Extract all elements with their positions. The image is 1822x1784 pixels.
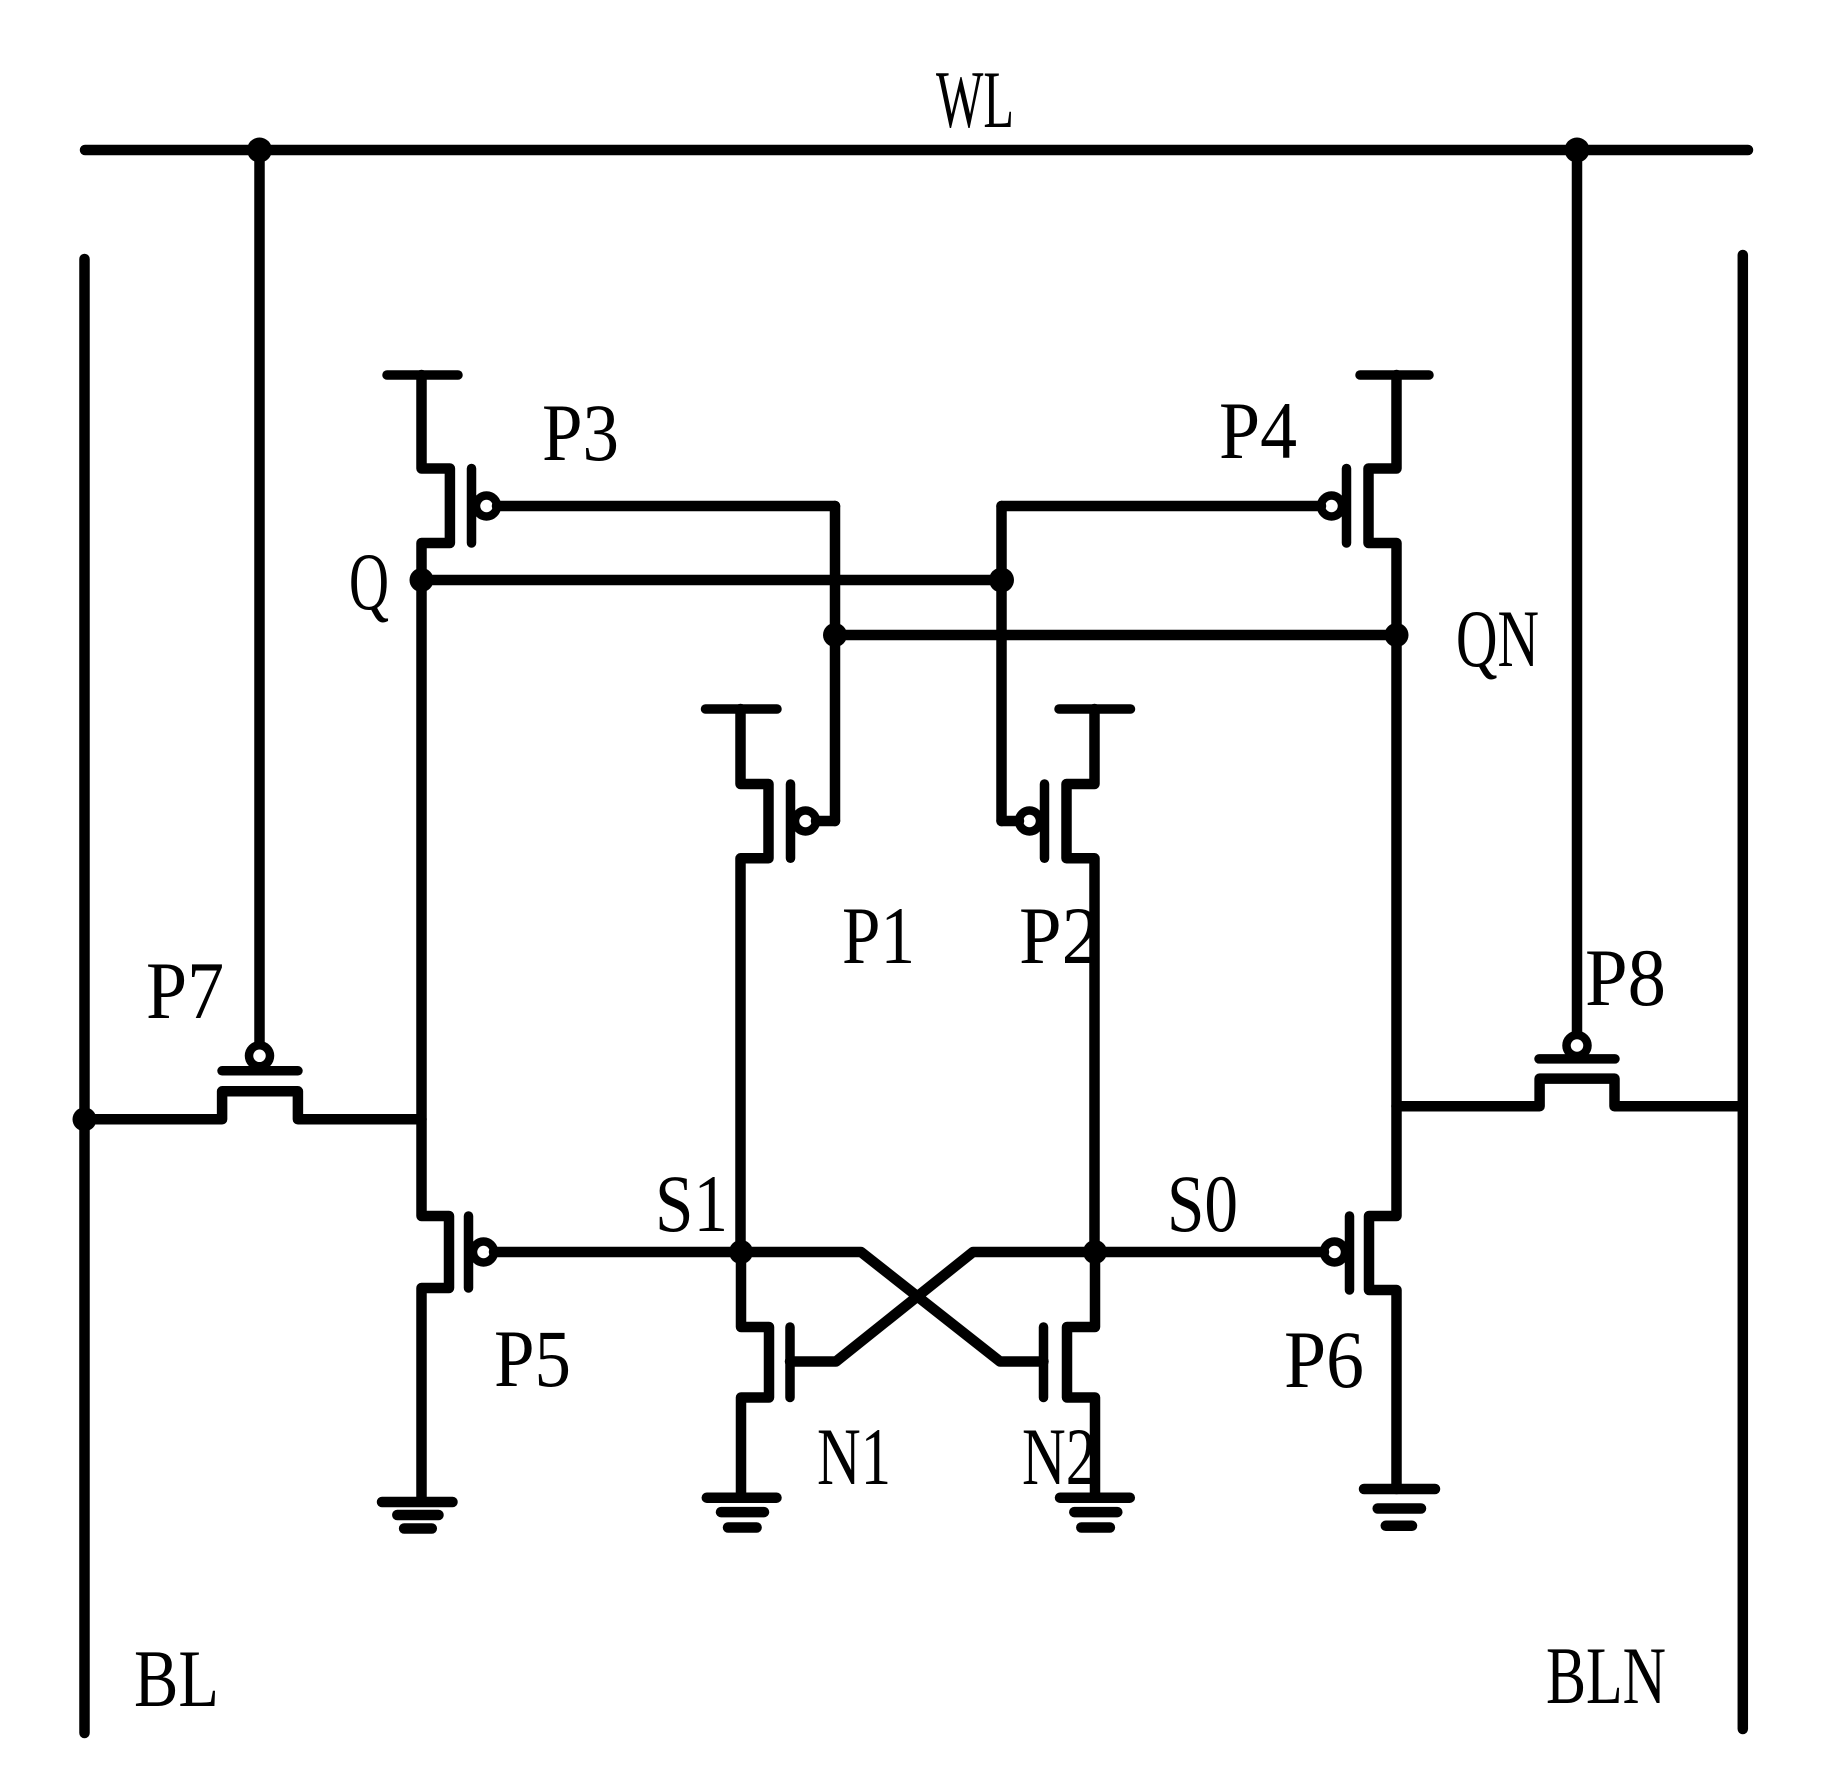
power VDD bar of P1 <box>706 704 778 714</box>
transistor P8 channel with source/drain leads (QN net to BLN) <box>1397 1079 1743 1107</box>
wire node Q horizontal <box>422 575 1002 586</box>
transistor P7 gate bubble <box>249 1045 270 1066</box>
ground symbol below P6 <box>1364 1489 1435 1526</box>
wire BLN bit line vertical <box>1738 255 1749 1729</box>
wire node QN horizontal <box>835 630 1397 641</box>
transistor P5 drain/channel/source Q net to ground <box>422 580 450 1498</box>
wire P4 gate to Q cross vertical <box>1002 501 1322 512</box>
svg-text:BL: BL <box>134 1633 219 1724</box>
transistor P6 gate bubble <box>1324 1242 1345 1263</box>
svg-text:QN: QN <box>1456 593 1539 684</box>
svg-text:P7: P7 <box>146 945 224 1036</box>
svg-text:P2: P2 <box>1019 890 1100 981</box>
transistor N1 gate bar <box>785 1327 795 1398</box>
wire P3 gate to QN cross vertical <box>497 501 835 512</box>
node S1 junction dot <box>729 1240 753 1264</box>
junction dot WL to P7 gate <box>247 138 272 163</box>
transistor P2 gate bar <box>1040 784 1050 858</box>
wire P6 gate to S0 <box>1095 1247 1324 1258</box>
transistor P4 gate bubble <box>1321 496 1342 517</box>
wire P8 gate lead from WL <box>1572 150 1583 1042</box>
ground symbol below P5 <box>382 1502 453 1529</box>
svg-text:Q: Q <box>349 536 389 627</box>
transistor P6 drain/channel/source QN net to ground <box>1369 635 1397 1489</box>
power VDD bar of P2 <box>1059 704 1131 714</box>
svg-text:P5: P5 <box>494 1313 571 1404</box>
transistor P1 source/channel/drain <box>741 709 769 1252</box>
svg-text:P1: P1 <box>842 890 915 981</box>
power VDD bar of P4 <box>1360 370 1429 380</box>
power VDD bar of P3 <box>387 370 458 380</box>
transistor P5 gate bubble <box>473 1242 494 1263</box>
svg-text:P4: P4 <box>1219 385 1297 476</box>
transistor P8 gate bar <box>1539 1054 1615 1064</box>
transistor P7 gate bar <box>222 1066 298 1076</box>
transistor P4 source/channel/drain <box>1369 375 1397 635</box>
transistor P7 channel with source/drain leads (BL to Q net) <box>85 1091 422 1119</box>
junction dot QN left <box>823 623 847 647</box>
svg-text:N2: N2 <box>1022 1411 1096 1502</box>
transistor N2 gate bar <box>1039 1327 1049 1398</box>
transistor P3 source/channel/drain <box>422 375 450 580</box>
node Q junction dot <box>410 568 434 592</box>
transistor P6 gate bar <box>1345 1216 1355 1290</box>
junction dot QN right <box>1385 623 1409 647</box>
ground symbol below N2 <box>1060 1498 1130 1528</box>
svg-text:N1: N1 <box>817 1411 891 1502</box>
wire cross-couple left vertical QN to P1 gate <box>830 506 841 821</box>
wire BL bit line vertical <box>79 259 90 1733</box>
node S0 junction dot <box>1083 1240 1107 1264</box>
wire cross-couple right vertical Q to P2 gate <box>996 506 1007 821</box>
wire WL horizontal <box>85 145 1748 156</box>
junction dot Q to right cross vertical <box>989 568 1014 593</box>
transistor N2 drain/channel/source <box>1067 1252 1095 1498</box>
transistor N1 drain/channel/source <box>741 1252 769 1498</box>
transistor P3 gate bubble <box>476 496 497 517</box>
wire P5 gate to S1 <box>494 1247 741 1258</box>
svg-text:WL: WL <box>936 54 1014 145</box>
transistor P4 gate bar <box>1342 469 1352 544</box>
svg-text:P3: P3 <box>542 387 619 478</box>
ground symbol below N1 <box>707 1498 777 1528</box>
wire P7 gate lead from WL <box>254 150 265 1052</box>
wire P1 gate to QN vertical <box>816 816 835 827</box>
transistor P3 gate bar <box>467 469 477 544</box>
svg-text:S0: S0 <box>1167 1158 1238 1249</box>
wire P2 gate to Q vertical <box>1002 816 1020 827</box>
junction dot BL to P7 <box>73 1107 97 1131</box>
wire S1 to N2 gate diagonal <box>741 1252 1044 1362</box>
junction dot WL to P8 gate <box>1565 138 1590 163</box>
transistor P8 gate bubble <box>1567 1035 1588 1056</box>
transistor P1 gate bubble <box>795 811 816 832</box>
wire S0 to N1 gate diagonal <box>790 1252 1095 1362</box>
transistor P2 gate bubble <box>1019 811 1040 832</box>
transistor P5 gate bar <box>464 1216 474 1288</box>
svg-text:P6: P6 <box>1284 1314 1364 1405</box>
svg-text:P8: P8 <box>1585 932 1666 1023</box>
transistor P2 source/channel/drain <box>1067 709 1095 1252</box>
transistor P1 gate bar <box>786 784 796 858</box>
svg-text:BLN: BLN <box>1546 1630 1666 1721</box>
svg-text:S1: S1 <box>655 1158 728 1249</box>
